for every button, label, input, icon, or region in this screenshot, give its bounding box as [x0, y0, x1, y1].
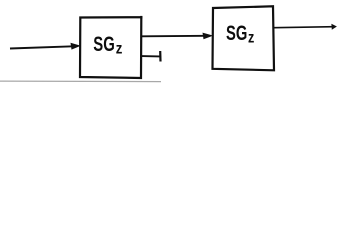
- wire: output arrow from U2: [274, 27, 334, 28]
- svg-text:z: z: [116, 41, 123, 58]
- terminator tick on stub: [159, 51, 162, 62]
- wire: faint horizontal scan line lower left: [0, 80, 161, 83]
- block SG_z U1: [80, 17, 141, 78]
- block SG_z U2: [213, 6, 275, 70]
- svg-text:z: z: [248, 30, 255, 47]
- wire: stub from U1 right edge: [142, 55, 160, 57]
- svg-text:SG: SG: [93, 33, 115, 56]
- wire: input arrow into U1: [10, 46, 73, 48]
- svg-text:SG: SG: [226, 22, 247, 45]
- wire: U1 output to U2 with arrow: [142, 35, 206, 38]
- corner overshoot on U1 top-right: [140, 16, 142, 19]
